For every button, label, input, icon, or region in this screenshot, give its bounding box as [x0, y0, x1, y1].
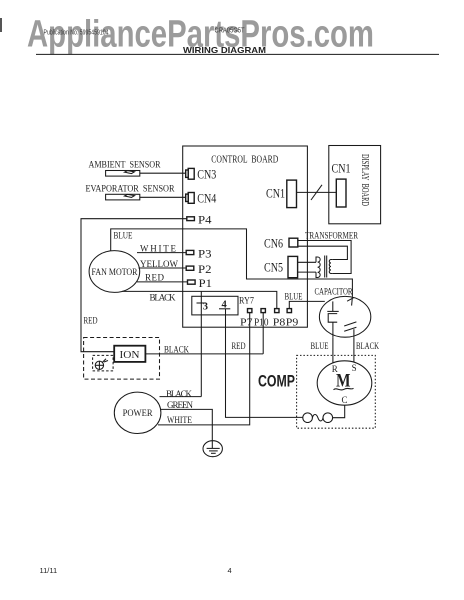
scan edge mark: [0, 18, 2, 32]
svg-text:GREEN: GREEN: [167, 400, 194, 410]
svg-text:C: C: [342, 395, 348, 405]
svg-text:P8: P8: [273, 316, 286, 328]
connector P1: [188, 280, 196, 284]
wire yellow fan to P2: [139, 267, 187, 269]
ion generator symbol: [95, 361, 103, 369]
wire comp C to overload: [333, 405, 345, 418]
comp dashed box: [297, 355, 376, 428]
wire CN6 to transformer secondary (outer): [298, 241, 351, 274]
ION outer dashed box: [84, 338, 160, 380]
terminal 4: [219, 308, 230, 310]
svg-text:P3: P3: [198, 246, 212, 260]
svg-text:BLACK: BLACK: [150, 293, 177, 303]
connector P2: [186, 266, 194, 270]
capacitor left section plates: [332, 301, 334, 311]
pin P8: [275, 309, 279, 313]
svg-text:WIRING DIAGRAM: WIRING DIAGRAM: [183, 45, 266, 55]
svg-text:CN6: CN6: [264, 236, 283, 250]
svg-text:CN3: CN3: [197, 167, 216, 181]
svg-text:4: 4: [228, 566, 232, 575]
connector P4: [187, 217, 195, 221]
wire blue P9 to capacitor: [289, 301, 325, 308]
svg-text:EVAPORATOR SENSOR: EVAPORATOR SENSOR: [86, 185, 176, 195]
svg-text:FAN MOTOR: FAN MOTOR: [92, 268, 139, 278]
capacitor body: [319, 296, 370, 337]
terminal block 3-4 box: [192, 296, 238, 315]
svg-text:RED: RED: [145, 273, 165, 283]
svg-text:P2: P2: [198, 262, 212, 276]
header rule: [36, 53, 439, 55]
svg-text:BLACK: BLACK: [356, 341, 379, 351]
svg-text:11/11: 11/11: [40, 566, 58, 575]
capacitor right section plates: [351, 297, 354, 306]
wire red terminal 4 to overload: [226, 309, 303, 418]
wire sensor to CN3: [140, 172, 186, 174]
power supply: [114, 392, 161, 433]
disconnect slash: [311, 185, 322, 200]
svg-text:POWER: POWER: [123, 408, 153, 418]
svg-text:RED: RED: [84, 316, 98, 326]
connector CN4: [186, 194, 189, 201]
wire sensor to CN4: [140, 196, 186, 198]
wire CN5 to transformer primary: [298, 261, 316, 263]
svg-text:RED: RED: [232, 341, 246, 351]
wire white fan to P3: [137, 252, 186, 254]
svg-text:CN1: CN1: [266, 186, 285, 200]
svg-text:Publication No. 5995459104: Publication No. 5995459104: [44, 30, 109, 37]
svg-text:BLACK: BLACK: [164, 344, 189, 354]
wire P10 down: [262, 313, 264, 354]
wire black fan to P8: [122, 291, 277, 308]
svg-text:COMP: COMP: [258, 372, 295, 391]
svg-text:P4: P4: [198, 212, 212, 226]
svg-text:BLUE: BLUE: [114, 230, 133, 240]
svg-text:RY7: RY7: [239, 296, 254, 306]
svg-text:WHITE: WHITE: [140, 244, 177, 254]
svg-text:P10: P10: [254, 316, 269, 328]
ION box: [114, 346, 145, 362]
svg-text:CAPACITOR: CAPACITOR: [315, 286, 353, 296]
fan motor: [89, 251, 140, 293]
svg-text:TRANSFORMER: TRANSFORMER: [305, 231, 358, 241]
wire red fan to P1: [137, 281, 188, 283]
transformer T1 primary coil: [316, 257, 320, 278]
terminal 3: [197, 302, 207, 304]
wire P4 red to ION: [81, 219, 187, 352]
pin P9: [287, 309, 291, 313]
svg-text:WHITE: WHITE: [167, 415, 192, 425]
wire CN1 to CN1: [297, 191, 337, 193]
wire blue fan to capacitor: [111, 229, 353, 297]
svg-text:P1: P1: [199, 276, 213, 290]
svg-text:CN1: CN1: [332, 162, 351, 176]
svg-text:DISPLAY BOARD: DISPLAY BOARD: [359, 154, 370, 206]
overload protector: [303, 413, 313, 423]
connector P3: [186, 250, 194, 254]
control board box: [183, 146, 308, 327]
connector CN3: [186, 170, 189, 177]
pin P10: [261, 309, 265, 313]
svg-text:BLUE: BLUE: [285, 292, 303, 302]
wire black capacitor to comp S: [353, 337, 355, 362]
wire blue capacitor to comp R: [332, 337, 334, 363]
ambient sensor body: [106, 171, 140, 177]
compressor motor: [317, 361, 372, 405]
pin P7: [248, 309, 252, 313]
wire black ION to P10: [145, 353, 263, 355]
ION inner dashed box: [93, 355, 114, 371]
svg-text:AMBIENT SENSOR: AMBIENT SENSOR: [89, 160, 162, 170]
display board box: [329, 146, 381, 224]
evaporator sensor body: [106, 194, 140, 200]
svg-text:P9: P9: [286, 316, 299, 328]
svg-text:CRA05G5T: CRA05G5T: [215, 28, 246, 35]
transformer core: [324, 256, 326, 278]
svg-text:4: 4: [222, 299, 228, 310]
svg-text:ION: ION: [120, 350, 140, 361]
transformer secondary coil: [329, 260, 332, 274]
svg-text:S: S: [352, 363, 357, 373]
svg-text:CONTROL BOARD: CONTROL BOARD: [211, 154, 278, 165]
svg-text:3: 3: [203, 302, 208, 313]
svg-text:P7: P7: [240, 316, 253, 328]
wire green power to ground: [161, 409, 213, 440]
svg-text:CN4: CN4: [197, 192, 217, 206]
svg-text:YELLOW: YELLOW: [140, 259, 179, 269]
wire black power to terminal 3: [160, 396, 202, 398]
svg-text:BLUE: BLUE: [311, 341, 329, 351]
wire white P7 to power: [158, 313, 250, 425]
ground symbol: [203, 441, 222, 457]
svg-text:BLACK: BLACK: [166, 389, 193, 399]
svg-text:CN5: CN5: [264, 260, 283, 274]
wire CN6 to transformer secondary (inner): [298, 246, 348, 259]
